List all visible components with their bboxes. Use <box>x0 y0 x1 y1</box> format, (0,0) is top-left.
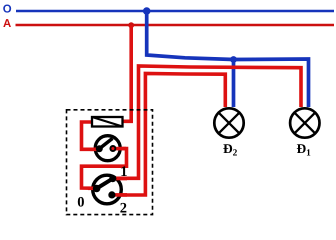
wire: two-way switch terminal 2 to lamp D2 red bus <box>112 74 225 196</box>
svg-text:O: O <box>3 4 12 16</box>
S1 open terminal <box>110 146 115 151</box>
switch S1 (single-pole switch, open) <box>90 136 126 161</box>
svg-text:0: 0 <box>77 195 84 211</box>
neutral line O <box>16 10 334 13</box>
S2 terminal 1 <box>109 175 116 182</box>
wire: fuse output to switch 1 pivot <box>82 122 101 149</box>
lamp D2 <box>214 108 243 137</box>
wire: blue branch down to lamp D2 <box>232 59 236 107</box>
wire stub: terminal 2 inside circle <box>112 193 127 197</box>
junction node on O line <box>143 7 151 15</box>
S2 terminal 2 <box>108 191 115 198</box>
S2 lever arm (common to terminal 1) <box>97 179 113 189</box>
svg-text:1: 1 <box>120 164 127 180</box>
distribution board dashed box <box>67 110 153 215</box>
fuse body <box>92 117 123 127</box>
wire: red feed from A line down to fuse <box>122 25 131 121</box>
S1 pivot terminal <box>96 145 103 152</box>
svg-text:A: A <box>3 18 11 30</box>
wire stub: S1 output inside circle <box>110 147 126 151</box>
S2 common terminal 0 <box>93 185 101 193</box>
junction node on A line <box>128 22 134 28</box>
wire stub: S1 input inside circle <box>90 148 100 152</box>
wire: two-way switch terminal 1 to lamp D1 red bus <box>113 66 301 178</box>
fuse <box>92 117 123 127</box>
wire stub: common inside circle <box>88 187 97 191</box>
svg-text:2: 2 <box>120 201 127 217</box>
phase line A <box>16 24 335 27</box>
lamp D1 <box>290 108 319 137</box>
S1 lever arm <box>99 138 112 148</box>
wire stub: terminal 1 inside circle <box>113 177 127 181</box>
wire: blue drop from O line to lamp bus <box>147 11 309 107</box>
fuse element diagonal <box>92 117 123 127</box>
junction node on blue lamp bus <box>230 56 237 63</box>
wire: switch 1 output to two-way switch common <box>82 149 127 189</box>
switch S2 (two-way switch) <box>88 175 127 204</box>
